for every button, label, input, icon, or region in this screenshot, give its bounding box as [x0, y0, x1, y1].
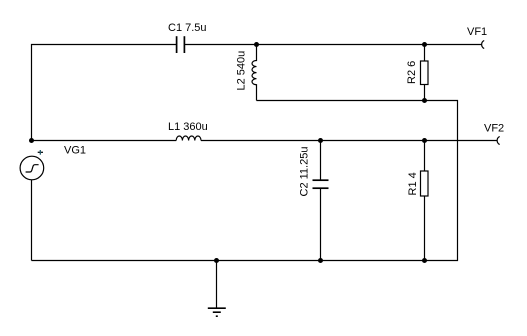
- inductor L1: [176, 136, 201, 141]
- wire VF2 line right segment (L1 to VF2 terminal): [201, 140, 497, 142]
- node dot R1 bottom: [422, 258, 427, 263]
- capacitor C2: [313, 141, 329, 261]
- node dot C2 bottom: [318, 258, 323, 263]
- node dot ground tap: [214, 258, 219, 263]
- inductor L2: [252, 45, 257, 101]
- wire VG1 top to top-left corner to C1: [32, 45, 177, 141]
- VG1 plus polarity mark: [38, 150, 43, 155]
- svg-text:VF1: VF1: [467, 26, 487, 38]
- node dot R2 bottom: [422, 98, 427, 103]
- ground: [208, 261, 226, 317]
- node dot VF2 line / C2 top: [318, 138, 323, 143]
- wire VF2 line left segment (VG1 to L1): [32, 140, 177, 142]
- resistor R2: [421, 45, 429, 101]
- svg-text:L2 540u: L2 540u: [236, 51, 248, 91]
- svg-text:C1 7.5u: C1 7.5u: [168, 22, 207, 34]
- svg-text:R2 6: R2 6: [406, 61, 418, 84]
- svg-text:VF2: VF2: [484, 123, 504, 135]
- node dot top rail / R2 top: [422, 42, 427, 47]
- output terminal VF2: [497, 137, 500, 145]
- resistor R1: [421, 141, 429, 261]
- capacitor C1: [177, 36, 185, 53]
- node dot VF2 line / R1 top: [422, 138, 427, 143]
- wire top rail C1 to VF1 terminal: [184, 44, 481, 46]
- svg-text:VG1: VG1: [64, 145, 86, 157]
- svg-text:R1 4: R1 4: [407, 172, 419, 195]
- voltage source VG1: [20, 156, 44, 180]
- wire VG1 bottom to bottom rail: [31, 180, 33, 261]
- svg-text:C2 11.25u: C2 11.25u: [299, 147, 311, 197]
- node dot top rail / L2 top: [254, 42, 259, 47]
- node dot VG1 tap: [29, 138, 34, 143]
- svg-text:L1 360u: L1 360u: [168, 121, 208, 133]
- output terminal VF1: [482, 41, 485, 49]
- wire L2 bottom, right vertical, bottom rail: [32, 101, 458, 261]
